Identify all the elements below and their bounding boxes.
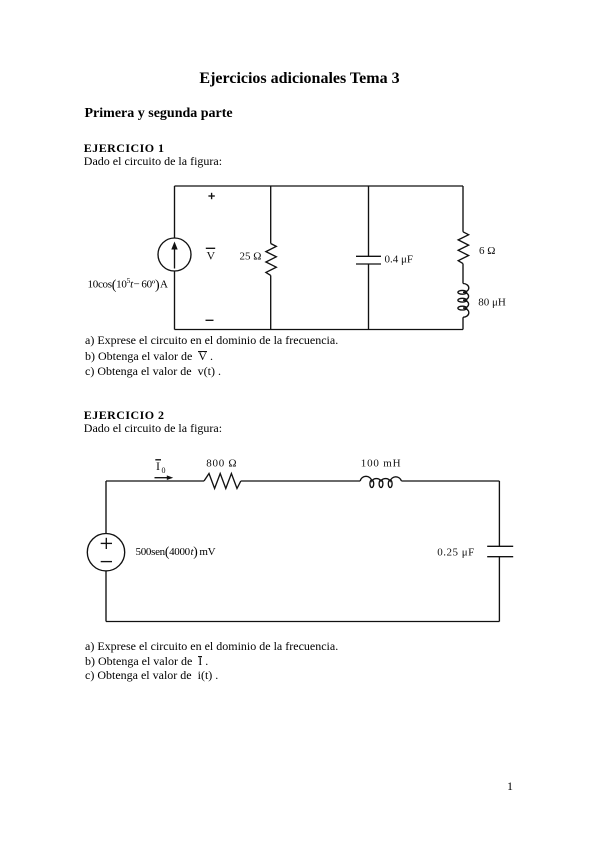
wire: circuit2 bottom: [106, 621, 499, 623]
capacitor 0.4 uF: [356, 256, 381, 264]
paragraph: ej2 a: [85, 640, 338, 652]
svg-text:V: V: [207, 248, 216, 262]
paragraph: ej1 b: [85, 350, 213, 362]
resistor 6 ohm: [458, 232, 468, 264]
wire: circuit1 left branch: [174, 186, 176, 330]
wire: right branch lower: [462, 317, 464, 329]
label 100 mH: [361, 458, 402, 470]
label I0 (phasor): [156, 459, 166, 475]
wire: 25 ohm branch upper: [270, 186, 272, 244]
wire: circuit2 right upper: [498, 481, 500, 546]
wire: circuit2 top left: [106, 480, 204, 482]
page number: [507, 780, 513, 792]
label 0.4 uF: [385, 254, 414, 266]
svg-text:100 mH: 100 mH: [361, 458, 402, 470]
wire: circuit2 right lower: [498, 557, 500, 622]
wire: right branch middle: [462, 264, 464, 284]
wire: circuit1 top: [175, 185, 464, 187]
title: [0, 71, 599, 87]
paragraph: ej1 a: [85, 334, 338, 346]
node -: circuit1 bottom polarity: [206, 319, 214, 321]
wire: capacitor branch upper: [368, 186, 370, 256]
wire: V overline: [206, 247, 215, 249]
capacitor 0.25 uF: [487, 546, 513, 556]
label 80 uH: [478, 297, 506, 309]
paragraph: ej2 b: [85, 655, 208, 667]
paragraph: Dado el circuito de la figura (1): [84, 155, 222, 167]
svg-text:0.25 μF: 0.25 μF: [437, 546, 475, 558]
svg-text:25 Ω: 25 Ω: [240, 250, 262, 262]
paragraph: ej2 c: [85, 669, 218, 681]
heading: EJERCICIO 2: [84, 409, 165, 421]
voltage source 500sen: [87, 534, 124, 571]
label 0.25 uF: [437, 546, 475, 558]
svg-text:I: I: [156, 459, 160, 473]
label 800 ohm: [206, 458, 237, 470]
wire: circuit2 top middle: [241, 480, 360, 482]
wire: I overline: [155, 459, 161, 461]
heading: Primera y segunda parte: [85, 107, 233, 121]
inductor 100 mH: [360, 476, 401, 487]
svg-text:0: 0: [162, 466, 166, 475]
wire: circuit2 left lower: [105, 571, 107, 622]
wire: capacitor branch lower: [368, 264, 370, 330]
resistor 800 ohm: [204, 474, 241, 489]
paragraph: Dado el circuito de la figura (2): [84, 422, 222, 434]
node +: circuit1 top polarity: [208, 193, 214, 199]
inductor 80 uH: [458, 284, 469, 318]
wire: circuit1 bottom: [175, 329, 464, 331]
wire: right branch upper: [462, 186, 464, 232]
paragraph: ej1 c: [85, 365, 221, 377]
label: current source value: [88, 277, 168, 293]
current source I (10cos): [158, 238, 191, 271]
svg-text:80 μH: 80 μH: [478, 297, 506, 309]
heading: EJERCICIO 1: [84, 142, 165, 154]
label 25 ohm: [240, 250, 262, 262]
label I0 current arrow: [155, 475, 174, 480]
svg-text:0.4 μF: 0.4 μF: [385, 254, 414, 266]
wire: circuit2 left upper: [105, 481, 107, 534]
wire: 25 ohm branch lower: [270, 275, 272, 329]
label 6 ohm: [479, 245, 495, 257]
resistor 25 ohm: [266, 244, 276, 276]
svg-text:800 Ω: 800 Ω: [206, 458, 237, 470]
label V (phasor): [207, 248, 216, 262]
svg-text:6 Ω: 6 Ω: [479, 245, 495, 257]
wire: circuit2 top right: [401, 480, 499, 482]
label: voltage source value: [136, 545, 216, 559]
